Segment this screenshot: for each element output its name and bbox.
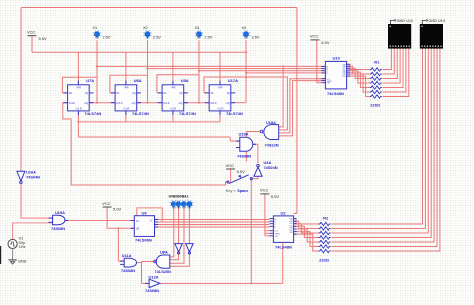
- wire R1 row5 to U12 pin: [383, 49, 403, 88]
- svg-text:1Q: 1Q: [85, 91, 88, 95]
- svg-text:R2: R2: [323, 216, 329, 221]
- svg-text:~PR: ~PR: [217, 85, 222, 89]
- wire U9 out2 to U2 in2: [155, 221, 270, 223]
- wire left rail upper (to U16A input): [20, 8, 22, 172]
- junction reset line: [250, 282, 252, 284]
- svg-text:74LS20N: 74LS20N: [155, 269, 172, 274]
- indicator lamp X1: [93, 26, 111, 40]
- wire probe X1 tap vertical: [96, 40, 98, 102]
- svg-text:1CLK: 1CLK: [163, 101, 170, 105]
- svg-text:GND U12: GND U12: [397, 19, 413, 23]
- svg-text:2.5V: 2.5V: [103, 36, 111, 40]
- svg-text:1D: 1D: [163, 91, 166, 95]
- resistor pack R2 220 ohm: [319, 216, 331, 263]
- wire V1 to ground: [12, 249, 14, 260]
- wire PRE pin FF3: [172, 52, 174, 85]
- svg-text:U18A: U18A: [266, 120, 276, 125]
- svg-text:~BI: ~BI: [274, 236, 278, 238]
- wire R2 row2 to U14 pin: [331, 49, 425, 229]
- flip-flop U7A 74LS74N: [63, 78, 101, 116]
- svg-text:74S08N: 74S08N: [121, 268, 135, 273]
- junction QB tap: [146, 68, 148, 70]
- svg-text:74S08N: 74S08N: [145, 288, 159, 293]
- junction QD tap: [245, 72, 247, 74]
- svg-text:U11A: U11A: [122, 253, 132, 258]
- wire V1 to U15A input B: [13, 223, 53, 240]
- NAND gate U18A 74S22N mirrored: [260, 120, 279, 147]
- svg-text:~PR: ~PR: [170, 85, 175, 89]
- ground GND below V1: [8, 260, 26, 265]
- junction QC tap: [198, 70, 200, 72]
- wire U10 out7 to R1: [347, 76, 370, 96]
- svg-text:1B: 1B: [136, 228, 139, 231]
- svg-text:G0B0B0BA1: G0B0B0BA1: [169, 195, 189, 199]
- svg-text:OG: OG: [289, 232, 293, 234]
- svg-text:74S22N: 74S22N: [265, 142, 279, 147]
- wire left rail lower (U16A out to U15A): [20, 184, 22, 218]
- svg-text:74S08N: 74S08N: [237, 154, 251, 159]
- wire U10 out4 to R1: [347, 70, 370, 83]
- junction ~Q2: [147, 102, 149, 104]
- svg-text:~CLR: ~CLR: [123, 107, 130, 111]
- wire VCC2 drop: [316, 40, 318, 83]
- svg-text:1CLK: 1CLK: [69, 101, 76, 105]
- wire CLR rail y137 to U1A: [78, 136, 230, 138]
- svg-text:~1Q: ~1Q: [83, 101, 88, 105]
- wire PRE pin FF2: [125, 52, 127, 85]
- junction VCC4 branch: [117, 227, 119, 229]
- power VCC1 5.0V top-left: [27, 30, 47, 41]
- inverter U16A 74S04N: [17, 170, 40, 184]
- svg-text:1D: 1D: [69, 91, 72, 95]
- svg-text:U19A: U19A: [239, 132, 249, 137]
- junction ~Q3: [198, 102, 200, 104]
- wire U10 out1 to R1: [347, 64, 370, 69]
- wire U18A output down: [246, 132, 259, 162]
- wire probe X4 tap vertical: [245, 40, 247, 102]
- wire R1 row2 to U12 pin: [383, 49, 395, 74]
- wire R2 row5 to U14 pin: [331, 49, 434, 242]
- wire R2 row7 to U14 pin: [331, 49, 440, 251]
- wire bus QB y68: [148, 68, 326, 70]
- svg-text:~1Q: ~1Q: [131, 101, 136, 105]
- svg-text:U12A: U12A: [149, 275, 159, 280]
- svg-text:74LS74N: 74LS74N: [132, 111, 149, 116]
- wire ~Q1 to CLK2: [89, 102, 115, 104]
- wire VCC3 drop: [264, 194, 266, 236]
- wire U1A output / U3A output: [253, 144, 258, 163]
- wire loop ~Q to D of FF3: [157, 75, 199, 93]
- svg-text:~CLR: ~CLR: [75, 107, 82, 111]
- svg-text:U8A: U8A: [160, 249, 168, 254]
- junction QA tap: [96, 65, 98, 67]
- wire CLR rail y122: [78, 121, 220, 123]
- svg-text:X1: X1: [93, 26, 98, 30]
- wire U10 out5 to R1: [347, 72, 370, 87]
- svg-text:X3: X3: [195, 26, 200, 30]
- wire R2 row4 to U14 pin: [331, 49, 431, 238]
- wire R1 row4 to U12 pin: [383, 49, 401, 83]
- wire VCC5 drop: [230, 169, 232, 182]
- svg-text:1CLK: 1CLK: [116, 101, 123, 105]
- seven-segment display U14: [420, 19, 445, 48]
- wire U9 out1 to U2 in1: [155, 219, 270, 221]
- wire U10 pin to U18A in4: [279, 81, 326, 136]
- svg-text:74LS48N: 74LS48N: [327, 91, 344, 96]
- wire R1 row3 to U12 pin: [383, 49, 398, 79]
- wire to U15A input A: [21, 217, 53, 219]
- NAND IC U9 74LS00N: [131, 211, 158, 243]
- NAND gate U8A 74LS20N mirrored: [154, 249, 171, 273]
- svg-text:1Q: 1Q: [132, 91, 135, 95]
- junction loop4 tap: [245, 76, 247, 78]
- indicator lamp X4: [242, 26, 260, 40]
- svg-text:OG: OG: [342, 76, 346, 78]
- wire probe X2 tap vertical: [147, 40, 149, 102]
- svg-text:1D: 1D: [210, 91, 213, 95]
- svg-text:VCC: VCC: [102, 201, 111, 206]
- wire U10 out3 to R1: [347, 68, 370, 78]
- wire loop ~Q to D of FF1: [62, 77, 97, 93]
- wire tap bus to U18A in1: [279, 66, 283, 127]
- svg-text:2.5V: 2.5V: [153, 36, 161, 40]
- wire R1 row6 to U12 pin: [383, 49, 406, 92]
- wire CLR drop: [172, 111, 174, 122]
- svg-text:5.0V: 5.0V: [321, 40, 330, 45]
- svg-text:Key =: Key =: [226, 189, 237, 193]
- wire U2 out5 to R2: [294, 229, 319, 242]
- wire ~Q4 stub: [231, 102, 246, 104]
- wire U13A output: [137, 262, 142, 264]
- wire probe 2 down to U8A in2: [170, 207, 179, 259]
- svg-text:GND U14: GND U14: [428, 19, 444, 23]
- wire U15A out to U9: [65, 220, 134, 222]
- svg-text:5.0V: 5.0V: [113, 207, 122, 212]
- wire gates to U12A input: [141, 262, 143, 284]
- junction X4 at PRE rail: [245, 51, 247, 53]
- wire ~Q3 to CLK4: [184, 102, 210, 104]
- indicator probe 1 of G0B0B0BA1 row: [170, 200, 178, 209]
- decoder U10 74LS48N: [321, 56, 350, 96]
- svg-text:X4: X4: [242, 26, 247, 30]
- wire PRE rail y52: [32, 51, 246, 53]
- svg-text:1Q: 1Q: [226, 91, 229, 95]
- svg-text:VCC: VCC: [310, 34, 319, 39]
- wire up to U2 bottom: [282, 242, 284, 283]
- flip-flop U17A 74LS74N: [205, 78, 243, 116]
- wire long vertical x297 to U2: [296, 8, 298, 214]
- svg-text:~CLR: ~CLR: [170, 107, 177, 111]
- svg-text:220Ω: 220Ω: [319, 258, 330, 263]
- wire U8A output: [142, 261, 156, 263]
- wire branch to U13A input: [118, 228, 124, 261]
- indicator probe 2 of G0B0B0BA1 row: [174, 200, 182, 209]
- svg-text:74S08N: 74S08N: [51, 226, 65, 231]
- wire tap loop4 to U18A in2: [246, 77, 287, 130]
- wire bus QC y70: [199, 70, 325, 72]
- wire U2 out6 to R2: [294, 232, 319, 247]
- svg-text:VCC: VCC: [27, 30, 36, 35]
- svg-text:~BI: ~BI: [326, 83, 330, 85]
- svg-text:74S04N: 74S04N: [264, 165, 278, 170]
- power VCC3 5.0V above U2: [260, 188, 279, 199]
- svg-text:U5A: U5A: [181, 78, 189, 83]
- AND gate U15A 74S08N: [49, 210, 69, 231]
- buffer U12A 74S08N: [145, 275, 160, 294]
- svg-text:~CLR: ~CLR: [217, 107, 224, 111]
- svg-text:~1Q: ~1Q: [225, 101, 230, 105]
- inverter U4A before U8A: [175, 244, 183, 254]
- power VCC2 5.0V above U10: [310, 34, 330, 45]
- svg-text:2.5V: 2.5V: [252, 36, 260, 40]
- wire probe 3 down to U8A in3: [170, 207, 184, 263]
- wire switch pole down to reset line: [250, 179, 252, 284]
- svg-text:U7A: U7A: [86, 78, 94, 83]
- power VCC4 5.0V above U9: [102, 201, 121, 212]
- wire U2 out7 to R2: [294, 234, 319, 251]
- wire U2 out2 to R2: [294, 221, 319, 228]
- clock source V1: [8, 237, 25, 249]
- window edge artifact: [0, 246, 2, 264]
- svg-text:Space: Space: [237, 189, 248, 193]
- wire U10 out6 to R1: [347, 74, 370, 92]
- svg-text:~PR: ~PR: [123, 85, 128, 89]
- svg-text:R1: R1: [374, 60, 380, 65]
- wire probe 1 down to U8A in1: [170, 207, 174, 257]
- svg-text:U9: U9: [142, 211, 148, 216]
- svg-text:2.5V: 2.5V: [205, 36, 213, 40]
- wire U10 out2 to R1: [347, 66, 370, 74]
- wire VCC1 drop: [31, 36, 33, 53]
- flip-flop U5A 74LS74N: [158, 78, 196, 116]
- wire probe 4 down to U8A in4: [170, 207, 190, 266]
- wire bus QD y72: [246, 72, 325, 74]
- wire U12A output: [160, 282, 282, 284]
- wire into U1A input A: [229, 137, 231, 141]
- junction ~Q1: [96, 102, 98, 104]
- wire CLR drop: [125, 111, 127, 122]
- resistor pack R1 220 ohm: [370, 60, 382, 108]
- wire U3A input from switch: [251, 177, 258, 179]
- svg-text:1A: 1A: [136, 220, 139, 223]
- inverter U5A before U8A: [186, 244, 194, 254]
- svg-text:1Hz: 1Hz: [19, 245, 26, 249]
- svg-text:220Ω: 220Ω: [370, 103, 381, 108]
- svg-text:1Q: 1Q: [179, 91, 182, 95]
- indicator lamp X2: [143, 26, 161, 40]
- wire U9 out4 to U2 in4: [155, 226, 270, 228]
- inverter U3A 74S04N: [254, 160, 278, 177]
- wire VCC4 to U9: [107, 207, 134, 228]
- svg-text:~1Q: ~1Q: [178, 101, 183, 105]
- wire R2 row3 to U14 pin: [331, 49, 428, 233]
- svg-text:5.0V: 5.0V: [271, 194, 280, 199]
- wire ~Q2 to CLK3: [137, 102, 162, 104]
- wire U2 out1 to R2: [294, 219, 319, 224]
- indicator probe 4 of G0B0B0BA1 row: [185, 200, 193, 209]
- AND gate U19A 74S08N: [236, 132, 256, 159]
- svg-text:U6A: U6A: [134, 78, 142, 83]
- svg-text:1CLK: 1CLK: [210, 101, 217, 105]
- wire R2 row1 to U14 pin: [331, 49, 422, 224]
- wire R1 row1 to U12 pin: [383, 49, 392, 70]
- wire clock to CLK1 from switch: [63, 103, 228, 185]
- decoder U2 74LS48N: [269, 210, 296, 249]
- svg-text:74LS00N: 74LS00N: [135, 238, 152, 243]
- svg-text:U15A: U15A: [55, 210, 65, 215]
- svg-text:~PR: ~PR: [76, 85, 81, 89]
- wire U2 out4 to R2: [294, 226, 319, 237]
- svg-text:VCC: VCC: [226, 163, 235, 168]
- svg-text:74LS48N: 74LS48N: [275, 245, 292, 250]
- wire loop ~Q to D of FF2: [110, 75, 148, 93]
- junction tap at bus QA: [282, 65, 284, 67]
- power VCC5 5.0V at switch: [226, 163, 246, 174]
- junction CLR rail: [77, 121, 79, 123]
- svg-text:5.0V: 5.0V: [39, 36, 48, 41]
- indicator probe 3 of G0B0B0BA1 row: [180, 200, 188, 209]
- wire U9 feedback loop: [137, 208, 162, 222]
- svg-text:U2: U2: [281, 210, 287, 215]
- svg-text:GND: GND: [18, 260, 27, 264]
- svg-text:VCC: VCC: [260, 188, 269, 193]
- svg-text:U10: U10: [333, 56, 341, 61]
- AND gate U11A 74S08N: [120, 253, 136, 273]
- flip-flop U6A 74LS74N: [111, 78, 149, 116]
- svg-text:1Y: 1Y: [150, 220, 153, 223]
- wire U10 pin to U18A in3: [279, 79, 326, 133]
- wire R1 row7 to U12 pin: [383, 49, 409, 97]
- svg-text:74LS74N: 74LS74N: [179, 111, 196, 116]
- wire U9 out3 to U2 in3: [155, 224, 270, 226]
- wire U2 out3 to R2: [294, 224, 319, 233]
- svg-text:74S04N: 74S04N: [26, 175, 40, 180]
- indicator lamp X3: [195, 26, 213, 40]
- switch J1 Key = Space: [226, 175, 253, 193]
- svg-text:1D: 1D: [116, 91, 119, 95]
- svg-text:5.0V: 5.0V: [237, 169, 246, 174]
- wire loop ~Q to D of FF4: [204, 77, 246, 93]
- svg-text:74LS74N: 74LS74N: [84, 111, 101, 116]
- seven-segment display U12: [388, 19, 413, 48]
- wire CLR1 drop: [77, 111, 79, 137]
- wire PRE pin FF1: [77, 52, 79, 85]
- svg-text:X2: X2: [143, 26, 148, 30]
- svg-text:74LS74N: 74LS74N: [226, 111, 243, 116]
- wire CLR drop: [219, 111, 221, 122]
- wire R2 row6 to U14 pin: [331, 49, 437, 247]
- wire top rail: [21, 7, 297, 9]
- wire bus QA y66: [97, 65, 325, 67]
- wire probe X3 tap vertical: [198, 40, 200, 102]
- wire PRE pin FF4: [219, 52, 221, 85]
- svg-text:U17A: U17A: [228, 78, 238, 83]
